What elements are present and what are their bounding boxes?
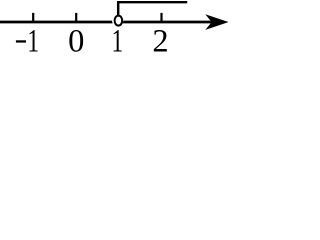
svg-text:2: 2 — [152, 23, 168, 59]
svg-text:1: 1 — [112, 24, 124, 59]
svg-text:0: 0 — [68, 23, 84, 59]
svg-text:1: 1 — [27, 24, 39, 59]
